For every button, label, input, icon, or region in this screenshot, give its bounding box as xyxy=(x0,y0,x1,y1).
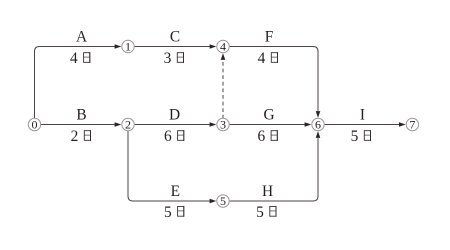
svg-text:H: H xyxy=(262,183,273,200)
node 5 xyxy=(217,194,229,208)
wire activity D (2 to 3) xyxy=(135,122,217,127)
value 6日 (G) xyxy=(257,128,277,145)
svg-text:5: 5 xyxy=(256,204,264,221)
svg-text:2: 2 xyxy=(125,118,131,132)
node 6 xyxy=(312,118,324,132)
svg-text:0: 0 xyxy=(32,118,38,132)
node 3 xyxy=(217,118,229,132)
node 2 xyxy=(122,118,134,132)
value 4日 (A) xyxy=(70,50,90,67)
wire activity H (5 to 6) xyxy=(230,131,321,201)
svg-text:7: 7 xyxy=(409,118,415,132)
value 3日 (C) xyxy=(164,50,184,67)
svg-text:D: D xyxy=(169,106,180,123)
svg-text:3: 3 xyxy=(220,118,226,132)
wire activity F (4 to 6) xyxy=(230,47,321,118)
wire activity B (0 to 2) xyxy=(41,122,121,127)
wire activity C (1 to 4) xyxy=(135,44,217,49)
node 1 xyxy=(122,40,134,54)
svg-text:1: 1 xyxy=(125,40,131,54)
wire activity G (3 to 6) xyxy=(230,122,312,127)
svg-text:4: 4 xyxy=(70,50,78,67)
svg-text:2: 2 xyxy=(71,128,79,145)
svg-text:3: 3 xyxy=(164,50,172,67)
value 5日 (E) xyxy=(164,204,184,221)
wire activity E (2 to 5) xyxy=(128,131,216,203)
svg-text:5: 5 xyxy=(351,128,359,145)
node 0 xyxy=(28,118,40,132)
svg-text:5: 5 xyxy=(164,204,172,221)
svg-text:4: 4 xyxy=(258,50,266,67)
svg-text:E: E xyxy=(171,183,180,200)
wire activity I (6 to 7) xyxy=(325,122,406,127)
svg-text:A: A xyxy=(76,28,87,45)
dashed dummy arrow (3 to 4) xyxy=(221,53,226,118)
node 7 xyxy=(406,118,418,132)
svg-text:B: B xyxy=(76,106,86,123)
value 4日 (F) xyxy=(258,50,278,67)
svg-text:6: 6 xyxy=(315,118,321,132)
node 4 xyxy=(217,40,229,54)
svg-text:F: F xyxy=(265,28,274,45)
value 2日 (B) xyxy=(71,128,91,145)
svg-text:4: 4 xyxy=(220,40,226,54)
svg-text:I: I xyxy=(360,106,365,123)
svg-text:C: C xyxy=(170,28,180,45)
wire activity A (0 to 1) xyxy=(35,44,122,118)
svg-text:6: 6 xyxy=(257,128,265,145)
svg-text:G: G xyxy=(263,106,274,123)
svg-text:5: 5 xyxy=(220,194,226,208)
value 5日 (I) xyxy=(351,128,371,145)
value 5日 (H) xyxy=(256,204,276,221)
svg-text:6: 6 xyxy=(164,128,172,145)
value 6日 (D) xyxy=(164,128,184,145)
